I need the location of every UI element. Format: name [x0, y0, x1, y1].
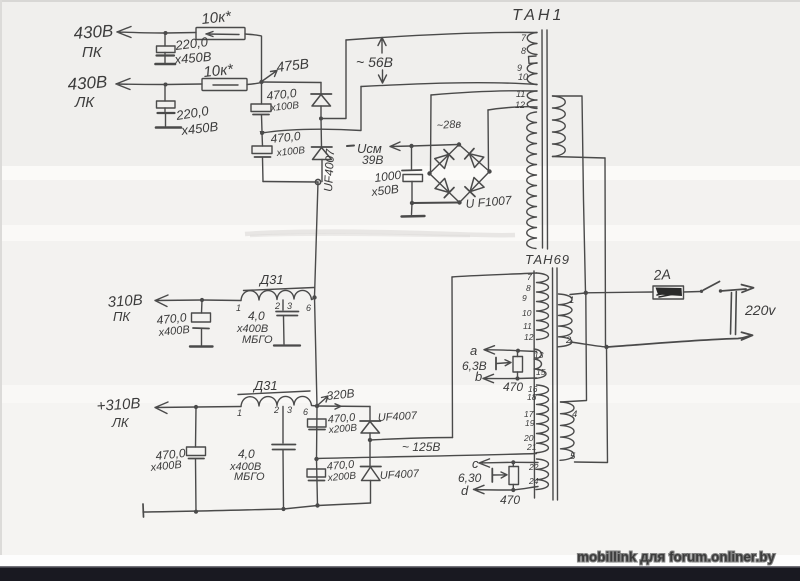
svg-text:10к*: 10к*: [203, 61, 235, 81]
svg-text:6: 6: [303, 407, 308, 417]
junction d: [511, 488, 515, 492]
diode D3 UF4007: [360, 407, 381, 440]
T2 pin numbers: [522, 272, 546, 486]
svg-text:11: 11: [523, 321, 532, 331]
junction C8 on ground rail: [194, 510, 198, 514]
svg-text:c: c: [472, 456, 479, 471]
bottom white strip: [0, 555, 800, 568]
svg-text:430В: 430В: [67, 72, 108, 94]
resistor R1 10k: [196, 28, 262, 81]
svg-text:UF4007: UF4007: [378, 410, 419, 424]
node +310V LK output arrow: [155, 402, 196, 414]
svg-text:12: 12: [515, 100, 525, 110]
junction 310V PK: [200, 298, 204, 302]
node 430V PK output arrow: [117, 27, 166, 38]
wire a to pin13: [518, 350, 537, 353]
svg-text:Д31: Д31: [258, 272, 284, 287]
label arrow 475V: [263, 71, 277, 81]
svg-text:430В: 430В: [73, 21, 114, 43]
capacitor C7 4,0 x400V MBGO: [274, 300, 300, 346]
svg-text:470: 470: [503, 380, 523, 394]
svg-text:2: 2: [274, 301, 280, 311]
node 430V LK output arrow: [116, 79, 166, 90]
diode D2 UF4007: [312, 119, 333, 182]
wire return junction down to winding5: [575, 347, 608, 463]
junction c: [511, 460, 515, 464]
svg-text:2: 2: [273, 405, 279, 415]
node b output arrow: [483, 374, 518, 382]
svg-text:19: 19: [525, 418, 535, 428]
junction fuse node: [584, 291, 588, 295]
svg-text:10к*: 10к*: [201, 8, 233, 28]
wire to choke L1: [202, 299, 241, 302]
svg-text:ПК: ПК: [113, 309, 131, 324]
wire fuse node to fuse: [586, 291, 653, 294]
wire T1 primary top to fuse riser: [553, 96, 586, 293]
L2 pin numbers: [237, 405, 308, 418]
wire D1 node to TAH1 pin7 riser: [321, 40, 346, 119]
svg-text:Д31: Д31: [252, 378, 278, 393]
wire T1 primary bottom: [553, 157, 606, 159]
svg-text:4,0: 4,0: [248, 309, 265, 323]
svg-text:ЛК: ЛК: [74, 94, 95, 111]
T2 winding backbone: [533, 271, 536, 498]
wire b to pin15: [518, 377, 537, 380]
svg-text:18: 18: [527, 392, 537, 402]
wire D4 bottom to ground rail: [318, 503, 371, 506]
svg-text:3: 3: [287, 301, 292, 311]
bridge rectifier UF1007: [427, 142, 491, 204]
wire TAH1 pin10: [361, 83, 537, 87]
T1 winding 9-10: [527, 63, 537, 85]
T2 winding 22-24: [536, 459, 549, 490]
svg-text:6: 6: [306, 303, 311, 313]
fuse F1 2A: [653, 286, 684, 299]
svg-text:3: 3: [287, 405, 292, 415]
wire 320V rail to diode D3: [317, 405, 370, 408]
wire 430V LK to resistor: [166, 83, 202, 86]
node c output arrow: [479, 459, 513, 467]
svg-text:~ 125В: ~ 125В: [402, 440, 440, 454]
junction D1 cathode node: [319, 117, 323, 121]
svg-text:1: 1: [236, 303, 241, 313]
wire fuse to switch: [684, 291, 701, 294]
T2 primary pin numbers: [565, 295, 577, 462]
svg-text:ТАН1: ТАН1: [512, 7, 564, 24]
pencil smudge streak: [245, 232, 515, 236]
svg-text:ТАН69: ТАН69: [525, 252, 570, 267]
wire left rect vertical: [451, 277, 454, 438]
capacitor C1 220,0 x450V: [156, 34, 176, 65]
plug pins 220v: [731, 292, 737, 335]
ground below C5: [402, 203, 425, 217]
wire to choke L2: [196, 406, 241, 409]
svg-text:+310В: +310В: [96, 395, 141, 415]
svg-text:12: 12: [524, 332, 534, 342]
svg-text:8: 8: [526, 283, 531, 293]
node 310V PK output arrow: [155, 295, 202, 307]
svg-text:b: b: [475, 369, 482, 384]
wire T2 pin7 to left rect: [452, 273, 537, 277]
svg-text:320В: 320В: [326, 386, 355, 403]
svg-text:1: 1: [569, 295, 574, 306]
T2 primary winding 1-2: [558, 294, 572, 347]
resistor R2 10k: [202, 79, 262, 91]
svg-text:~ 56В: ~ 56В: [356, 54, 393, 70]
svg-text:1: 1: [237, 408, 242, 418]
diode D1 UF4007: [311, 83, 332, 118]
svg-text:9: 9: [522, 293, 527, 303]
capacitor C9 4,0 x400V MBGO: [272, 407, 296, 510]
trunk 475V rail vertical: [315, 182, 319, 506]
node 475V junction: [259, 80, 263, 84]
wire Usm to bridge top: [412, 145, 459, 147]
svg-text:470: 470: [500, 493, 520, 507]
svg-text:11: 11: [516, 89, 525, 99]
L1 pin numbers: [236, 301, 311, 313]
capacitor C10 470,0 x200V: [308, 419, 327, 430]
transformer T1 TAH1 core: [542, 30, 548, 249]
junction C5 bottom: [410, 201, 414, 205]
svg-text:2: 2: [565, 335, 572, 346]
wire 430V PK to resistor: [166, 32, 196, 35]
wire d to pin24: [513, 487, 538, 491]
measure arrow ~56V: [378, 38, 387, 84]
capacitor C8 470,0 x400V: [187, 407, 206, 512]
wire junction down to winding4: [561, 293, 587, 402]
svg-text:ПК: ПК: [82, 44, 103, 61]
wire T2 pin2 to 220v return junction: [571, 342, 607, 347]
label arrow 320V: [319, 396, 329, 405]
wire T2 pin1 to fuse junction: [570, 293, 586, 295]
capacitor C6 470,0 x400V: [190, 300, 213, 347]
resistor R3 470: [513, 351, 523, 379]
svg-text:4: 4: [572, 409, 577, 420]
junction L1 out on trunk: [312, 295, 316, 299]
wire c to pin22: [513, 461, 538, 463]
capacitor C11 470,0 x200V: [307, 469, 326, 481]
T1 series link 8-9: [529, 56, 538, 64]
T1 primary winding right: [553, 96, 566, 157]
svg-text:2А: 2А: [652, 266, 671, 283]
capacitor C5 1000 x50V: [402, 146, 423, 203]
ground rail bottom: [143, 504, 318, 517]
switch S1: [700, 282, 722, 293]
diode D4 UF4007: [361, 440, 382, 503]
small arrow on wire: [335, 404, 341, 409]
svg-text:a: a: [470, 343, 477, 358]
svg-text:4,0: 4,0: [238, 447, 255, 461]
node a output arrow: [484, 346, 518, 354]
svg-text:UF4007: UF4007: [380, 468, 421, 482]
wire C5 bottom to bridge bottom: [412, 202, 458, 205]
T2 winding 7-12: [537, 273, 549, 340]
choke L2 D31: [238, 391, 317, 407]
svg-text:5: 5: [570, 451, 576, 462]
transformer T2 TAH69 core: [553, 268, 558, 500]
wire TAH1 pin11 to bridge left: [431, 91, 537, 95]
capacitor C3 470,0 x100V: [251, 82, 271, 132]
wire 220v return with hook arrow: [607, 332, 753, 347]
svg-text:15: 15: [536, 367, 546, 377]
annotation input arrow to R4: [492, 469, 507, 483]
capacitor C2 220,0 x450V: [156, 85, 181, 128]
svg-text:10: 10: [518, 72, 528, 82]
junction 430V LK: [164, 83, 168, 87]
junction D3 node ~125V: [368, 438, 372, 442]
junction b: [515, 376, 519, 380]
svg-text:39В: 39В: [362, 153, 383, 167]
wire pin21 long to cap node: [317, 454, 537, 459]
T1 winding 7-8: [527, 33, 537, 55]
junction 430V PK: [164, 31, 168, 35]
svg-text:ЛК: ЛК: [111, 415, 130, 430]
svg-text:24: 24: [528, 476, 539, 486]
wire mid rail caps to pin9/10 riser: [262, 87, 361, 134]
svg-text:7: 7: [527, 272, 532, 282]
junction trunk top: [315, 179, 320, 184]
wire 475V to diode D1: [262, 81, 322, 84]
svg-text:10: 10: [522, 308, 532, 318]
svg-text:d: d: [461, 483, 469, 498]
svg-text:13: 13: [534, 350, 544, 360]
junction L2 out 320V: [315, 404, 319, 408]
junction C9 bottom: [281, 507, 285, 511]
node Usm annotation: [347, 142, 411, 151]
bottom dark bar: [0, 568, 800, 581]
junction 220v return: [604, 345, 608, 349]
resistor R4 470: [509, 462, 519, 490]
wire switch to plug arrow: [721, 285, 754, 293]
node d output arrow: [474, 485, 514, 493]
junction a: [516, 349, 520, 353]
wire TAH1 pin7 top: [346, 32, 537, 40]
wire right riser to 220v return: [604, 158, 607, 347]
scan edges: [0, 0, 800, 2]
junction trunk bottom: [315, 503, 319, 507]
T2 winding 13-15: [534, 349, 546, 379]
svg-text:UF4007: UF4007: [321, 147, 337, 192]
svg-text:220v: 220v: [744, 302, 776, 318]
wire ~125V to left rect corner: [370, 438, 453, 441]
annotation input arrow to R3: [496, 358, 511, 370]
choke L1 D31: [241, 288, 315, 301]
capacitor C4 470,0 x100V: [252, 133, 272, 182]
svg-text:mobillink для forum.onliner.by: mobillink для forum.onliner.by: [577, 549, 775, 565]
svg-text:~28в: ~28в: [436, 118, 461, 132]
wire cap bottom rail: [263, 181, 318, 184]
svg-text:22: 22: [528, 462, 539, 472]
junction cap mid node: [314, 457, 318, 461]
wire TAH1 pin12 to bridge right: [488, 107, 537, 110]
T2 winding 16-21: [536, 385, 549, 453]
T2 winding 4-5: [560, 402, 574, 460]
T1 pin numbers: [515, 33, 528, 110]
junction +310V LK: [194, 405, 198, 409]
T1 winding long secondary: [527, 112, 537, 249]
junction Usm: [409, 144, 413, 148]
T1 winding 11-12: [527, 91, 537, 109]
junction mid caps: [260, 131, 264, 135]
svg-text:МБГО: МБГО: [242, 334, 273, 346]
svg-text:21: 21: [526, 442, 537, 452]
svg-text:8: 8: [521, 46, 526, 56]
svg-text:МБГО: МБГО: [234, 471, 265, 483]
